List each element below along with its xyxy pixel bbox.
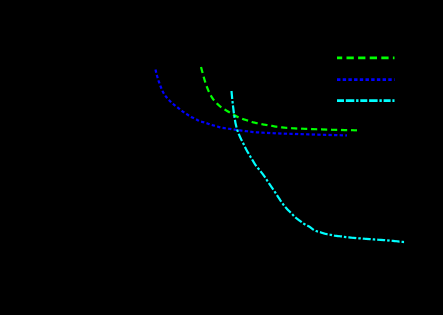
legend sample: green dashed xyxy=(337,57,395,60)
curve: green dashed (series 1) xyxy=(201,67,357,130)
legend sample: blue dotted xyxy=(337,78,395,81)
legend sample: cyan dash-dot xyxy=(337,99,395,102)
curve: blue dotted (series 2) xyxy=(156,70,348,136)
curve: cyan dash-dot (series 3) xyxy=(232,91,406,242)
